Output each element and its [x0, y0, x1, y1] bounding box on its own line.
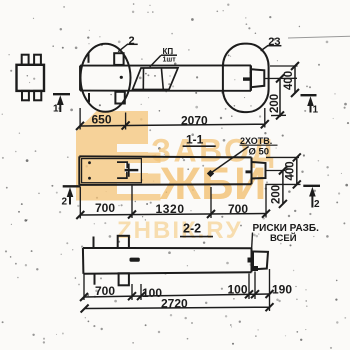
- svg-text:2-2: 2-2: [183, 222, 201, 236]
- dim 200 middle band: [266, 167, 301, 208]
- top view group: [80, 44, 269, 113]
- mark line in ellipse top: [88, 53, 90, 63]
- svg-text:2ХОТВ.: 2ХОТВ.: [240, 136, 272, 146]
- dot on beam: [120, 76, 123, 79]
- svg-text:1шт: 1шт: [163, 57, 177, 64]
- black mark bottom band: [130, 258, 140, 262]
- black tick middle band end: [246, 170, 252, 173]
- dim 400 middle band: [266, 153, 301, 188]
- KP plate inner line 2: [161, 68, 163, 90]
- mark rect in ellipse bottom: [115, 92, 124, 104]
- svg-text:ZHBIК.RУ: ZHBIК.RУ: [117, 217, 243, 244]
- svg-text:ВСЕЙ: ВСЕЙ: [270, 232, 297, 244]
- pad dot 2: [88, 177, 91, 180]
- svg-text:700: 700: [95, 201, 115, 215]
- label 2 leader: [118, 44, 128, 52]
- dim 400 top view: [270, 62, 299, 97]
- svg-text:400: 400: [285, 161, 297, 180]
- embedded part symbol: [117, 162, 138, 178]
- svg-text:400: 400: [283, 71, 295, 90]
- riska box bottom band: [253, 252, 268, 270]
- section mark 2 left: [63, 186, 80, 204]
- svg-text:Ø 50: Ø 50: [249, 146, 270, 157]
- mark line in ellipse bottom: [88, 93, 90, 102]
- dim 2720: [81, 303, 274, 312]
- middle band outline: [79, 156, 265, 185]
- tab line below: [94, 274, 96, 285]
- beam right end line: [250, 65, 252, 90]
- dim row 700 1320 700: [76, 184, 270, 219]
- hole leader: [212, 147, 249, 173]
- svg-text:1: 1: [313, 105, 319, 116]
- svg-text:100: 100: [142, 286, 162, 300]
- svg-text:200: 200: [269, 94, 281, 113]
- tab rect above: [118, 236, 129, 248]
- end view tab top-right: [34, 55, 41, 65]
- KP plate parallelogram: [133, 68, 179, 90]
- svg-text:2: 2: [314, 199, 320, 210]
- dim 200 top view: [265, 75, 298, 120]
- svg-text:1: 1: [53, 104, 59, 115]
- svg-text:2070: 2070: [181, 114, 208, 128]
- svg-text:100: 100: [228, 283, 248, 297]
- svg-text:2720: 2720: [161, 297, 188, 311]
- logo white stripe 1: [117, 144, 149, 152]
- svg-text:2: 2: [129, 35, 135, 47]
- dim 650 2070: [76, 108, 269, 130]
- hole diamond: [207, 170, 214, 177]
- label 23 leader: [261, 45, 269, 51]
- svg-text:650: 650: [92, 113, 112, 127]
- tab line above: [93, 237, 95, 249]
- end view tab top-left: [22, 55, 29, 65]
- svg-text:200: 200: [271, 185, 283, 204]
- logo white stripe 2: [125, 163, 149, 173]
- beam top edge: [80, 64, 251, 66]
- svg-text:1-1: 1-1: [186, 133, 204, 147]
- pad dot 1: [88, 161, 91, 164]
- end view tab bottom-right: [34, 91, 41, 100]
- riska box top view: [251, 69, 264, 87]
- riska box middle band: [252, 162, 266, 179]
- KP leader: [150, 55, 161, 67]
- section mark 2 right: [303, 186, 320, 208]
- tab rect below: [119, 273, 129, 285]
- black notch bottom band end: [248, 258, 254, 263]
- section mark 1 right: [301, 95, 317, 112]
- right stadium: [223, 44, 269, 113]
- dim row 700 100 100 190: [80, 269, 274, 311]
- beam bottom edge: [80, 90, 251, 92]
- svg-text:23: 23: [268, 36, 280, 48]
- logo arm 3: [148, 194, 161, 201]
- left ellipse: [81, 44, 131, 112]
- end view tab bottom-left: [22, 91, 29, 100]
- logo arm 2: [148, 174, 161, 184]
- beam left end: [79, 66, 81, 91]
- faint top right line: [288, 36, 350, 38]
- black tick at top view beam end: [243, 77, 251, 80]
- watermark logo stamp: [76, 111, 148, 201]
- svg-text:2: 2: [62, 197, 68, 208]
- riski leader: [252, 233, 253, 252]
- end view block body: [17, 65, 45, 91]
- KP plate inner line 1: [142, 68, 144, 90]
- logo arm 1: [148, 153, 161, 164]
- inner pad rect: [82, 159, 142, 183]
- bottom band outline: [83, 236, 268, 285]
- logo white stripe 3: [117, 184, 149, 195]
- section mark 1 left: [53, 94, 70, 112]
- svg-text:700: 700: [95, 284, 115, 298]
- svg-text:700: 700: [228, 202, 248, 216]
- svg-text:1320: 1320: [156, 202, 185, 216]
- svg-text:190: 190: [272, 283, 292, 297]
- mark rect in ellipse top: [114, 53, 123, 65]
